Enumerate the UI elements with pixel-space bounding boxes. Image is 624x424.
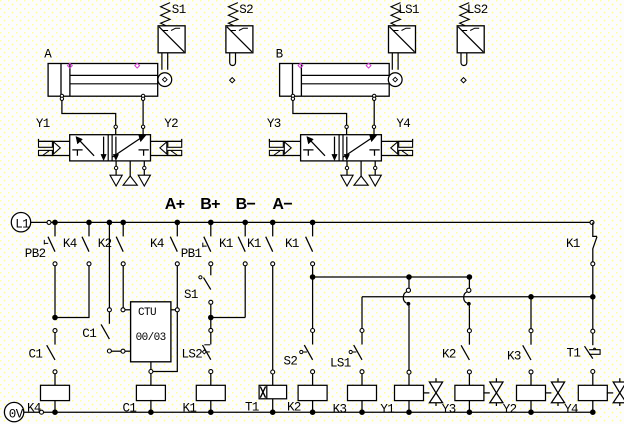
CTU output pin bottom [150, 362, 152, 370]
wire Y3 branch with crossover hop [464, 277, 471, 309]
wire K4 second contact to CTU right pin [176, 266, 178, 308]
svg-text:K4: K4 [150, 237, 164, 251]
svg-text:PB2: PB2 [25, 247, 46, 261]
tube cylinder A left port to valve V1 port 4 [62, 101, 116, 126]
counter CTU block [131, 302, 171, 362]
wire LS1 to coil K3 [361, 374, 363, 386]
valve V2 (5/2 solenoid valve for cylinder B) [269, 125, 412, 186]
wire K1 seal down to junction [244, 266, 246, 318]
svg-text:Y2: Y2 [503, 403, 517, 417]
wire coil K3 to 0V [361, 401, 363, 413]
svg-text:K3: K3 [333, 403, 347, 417]
svg-text:S2: S2 [239, 3, 253, 17]
contact C1 (NO) counter reset [101, 308, 111, 353]
svg-text:K2: K2 [287, 401, 301, 415]
junction on 0V at K3 coil [359, 409, 365, 415]
svg-text:C1: C1 [29, 348, 43, 362]
svg-text:A+: A+ [165, 196, 185, 213]
svg-text:S2: S2 [284, 355, 298, 369]
svg-text:Y4: Y4 [564, 403, 578, 417]
marker diamond S2 [230, 78, 235, 83]
junction on 0V at C1 coil [148, 409, 154, 415]
wire K2 to coil Y3 [468, 374, 470, 385]
junction bus A at Y3 branch [467, 274, 473, 280]
svg-text:K2: K2 [442, 348, 456, 362]
svg-text:K1: K1 [285, 237, 299, 251]
svg-text:PB1: PB1 [181, 247, 202, 261]
coil Y3 (solenoid) [455, 385, 484, 400]
wire seal-in horizontal [211, 317, 245, 319]
wire CTU right pin down to bottom output wire [153, 312, 177, 372]
junction on 0V at K4 coil [52, 409, 58, 415]
contact K4 (NO) [82, 222, 91, 265]
svg-text:B+: B+ [200, 196, 220, 213]
junction on L1 at K2 coil branch [310, 220, 316, 226]
svg-text:K1: K1 [566, 237, 580, 251]
limit switch S2 with plunger [226, 3, 253, 66]
pushbutton PB2 (NO) [48, 222, 57, 265]
coil Y2 (solenoid) [517, 385, 546, 400]
svg-text:K4: K4 [27, 402, 41, 416]
svg-text:CTU: CTU [138, 307, 156, 319]
wire bus to S2 [312, 277, 314, 329]
marker diamond cylinder B travel [366, 63, 371, 68]
wire bus B to T1 contact [592, 297, 594, 329]
limit switch LS2 with plunger [457, 3, 484, 66]
wire K2 contact to CTU count pin [122, 266, 124, 308]
junction on 0V at Y2 coil [528, 409, 534, 415]
coil Y1 (solenoid) [395, 385, 424, 400]
svg-text:T1: T1 [245, 401, 259, 415]
tube cylinder B left port to valve V2 port 4 [293, 101, 347, 126]
contact K1 (NO) third [306, 222, 315, 265]
marker diamond LS2 [461, 78, 466, 83]
limit switch LS1 with roller [388, 3, 415, 87]
marker diamond cylinder A piston [68, 63, 73, 68]
top rail L1 [31, 221, 592, 223]
contact K4 (NO) second [170, 222, 179, 265]
wire coil Y1 to 0V [408, 401, 410, 413]
svg-text:L1: L1 [15, 217, 29, 231]
cylinder A [48, 64, 158, 97]
svg-text:Y3: Y3 [267, 117, 281, 131]
coil K4 [41, 385, 70, 400]
contact LS2 (NO limit) [202, 328, 213, 373]
bus wire A horizontal [313, 276, 470, 278]
contact K2 (NO) [461, 329, 471, 374]
junction on L1 at PB1 branch [208, 220, 214, 226]
junction on 0V at Y1 coil [406, 409, 412, 415]
wire coil Y3 to 0V [468, 401, 470, 413]
junction on L1 at second K4 contact branch [175, 220, 181, 226]
valve symbol at Y2 [545, 392, 551, 394]
coil T1 (timer) with X box [259, 385, 287, 399]
cylinder B right port [373, 94, 376, 97]
valve symbol at Y1 [423, 392, 429, 394]
junction on L1 at T1 branch [270, 220, 276, 226]
junction K4-branch join [52, 315, 58, 321]
wire coil K2 to 0V [312, 401, 314, 413]
bottom rail terminal circle [40, 410, 44, 414]
svg-text:A: A [44, 48, 52, 62]
junction on 0V at T1 coil [270, 409, 276, 415]
wire T1 to coil Y4 [592, 374, 594, 386]
wire PB2 to junction [54, 266, 56, 318]
coil K2 [298, 385, 327, 400]
svg-text:Y3: Y3 [442, 403, 456, 417]
wire L1 to contact C1 (counter reset) [108, 222, 110, 307]
junction bus A at Y1 branch [406, 274, 412, 280]
wire C1 contact to CTU reset pin [111, 350, 123, 352]
tube cylinder A right port to valve V1 port 2 [142, 101, 144, 126]
terminal 0V [4, 402, 23, 421]
junction on L1 at K1 seal branch [242, 220, 248, 226]
junction on L1 at PB2 branch [52, 220, 58, 226]
contact K2 (NO) [116, 222, 125, 265]
junction on 0V at Y4 coil (rail end) [590, 409, 596, 415]
coil K3 [348, 385, 377, 400]
marker diamond cylinder B piston [298, 63, 303, 68]
svg-text:LS2: LS2 [182, 348, 203, 362]
junction on 0V at Y3 coil [467, 409, 473, 415]
valve symbol at Y4 [607, 392, 613, 394]
svg-text:S1: S1 [172, 3, 186, 17]
rail end terminal circle right [590, 220, 594, 224]
wire coil Y4 to 0V [592, 401, 594, 413]
cylinder B left port [291, 94, 294, 97]
junction on L1 at C1/CTU branch [107, 220, 113, 226]
svg-text:K2: K2 [98, 237, 112, 251]
svg-text:K1: K1 [183, 402, 197, 416]
junction on L1 at K2 contact branch [120, 220, 126, 226]
wire CTU bottom output to coil C1 [150, 374, 152, 386]
junction bus B at Y2 branch [528, 294, 534, 300]
coil Y4 (solenoid) [578, 385, 607, 400]
wire K1 NC to bus B [592, 266, 594, 297]
svg-text:K1: K1 [247, 237, 261, 251]
junction on 0V at K2 coil [310, 409, 316, 415]
CTU count input pin [125, 309, 131, 311]
contact S2 (NO limit) [300, 329, 315, 374]
cylinder A left port [60, 94, 63, 97]
wire S1 to junction [210, 304, 212, 328]
svg-text:K1: K1 [219, 237, 233, 251]
wire K4 contact down and left to PB2 branch [55, 266, 89, 318]
junction bus B at K1 branch [590, 294, 596, 300]
svg-text:LS2: LS2 [467, 3, 488, 17]
svg-text:0V: 0V [9, 407, 24, 421]
svg-text:LS1: LS1 [398, 3, 419, 17]
wire Y1 branch with crossover hop [403, 277, 410, 309]
wire PB1 to S1 [210, 266, 212, 276]
CTU output pin right [171, 309, 176, 311]
wire coil T1 to 0V [272, 399, 274, 412]
coil K1 [196, 385, 225, 400]
wire C1 contact to coil K4 [54, 374, 56, 385]
contact C1 (NO) on K4 coil branch [47, 329, 57, 374]
valve symbol at Y3 [483, 392, 489, 394]
marker diamond cylinder A travel [135, 63, 140, 68]
wire coil K4 to 0V [54, 401, 56, 413]
svg-text:LS1: LS1 [330, 357, 351, 371]
tube cylinder B right port to valve V2 port 2 [373, 101, 375, 126]
svg-text:K4: K4 [63, 237, 77, 251]
bus wire B horizontal [362, 296, 593, 298]
svg-text:C1: C1 [82, 327, 96, 341]
contact T1 (timer NO with delay symbol) [591, 329, 595, 333]
bottom rail 0V [24, 411, 593, 413]
bus B left corner down to LS1 [361, 297, 363, 329]
wire K3 to coil Y2 [530, 374, 532, 385]
valve V1 (5/2 solenoid valve for cylinder A) [39, 125, 182, 186]
svg-text:Y4: Y4 [396, 117, 410, 131]
wire LS2 to coil K1 [210, 374, 212, 385]
terminal L1 [11, 213, 30, 232]
junction bus A at K1 branch [310, 274, 316, 280]
coil C1 [136, 385, 165, 400]
cylinder B [280, 64, 390, 97]
rail terminal circle [47, 220, 51, 224]
contact LS1 (NO limit) [349, 329, 364, 374]
wire coil C1 to 0V [150, 400, 152, 412]
limit switch S1 with roller [158, 3, 185, 87]
junction S1/K1 seal-in [208, 315, 214, 321]
pushbutton PB1 (NO) [204, 222, 213, 265]
CTU reset input pin [125, 350, 131, 352]
wire K1 to bus junction [312, 266, 314, 277]
svg-text:00/03: 00/03 [136, 332, 166, 344]
svg-text:Y2: Y2 [164, 117, 178, 131]
svg-text:S1: S1 [184, 288, 198, 302]
junction on L1 at K4 contact branch [86, 220, 92, 226]
svg-text:B: B [276, 48, 284, 62]
svg-text:T1: T1 [567, 347, 581, 361]
cylinder A right port [141, 94, 144, 97]
svg-text:C1: C1 [123, 402, 137, 416]
contact S1 (NO limit) [204, 278, 211, 290]
contact K3 (NO) [523, 329, 533, 374]
junction on 0V at K1 coil [208, 409, 214, 415]
wire K1 to coil T1 [272, 266, 274, 370]
contact K1 (NO) for timer [266, 222, 275, 265]
svg-text:A−: A− [272, 196, 292, 213]
contact K1 (NC) top right [591, 222, 597, 265]
wire S2 to coil K2 [312, 374, 314, 386]
contact K1 (NO) seal-in [238, 222, 247, 265]
svg-text:Y1: Y1 [380, 403, 394, 417]
svg-text:K3: K3 [507, 350, 521, 364]
wire coil K1 to 0V [210, 401, 212, 413]
wire bus B to K3 contact [530, 297, 532, 329]
svg-text:Y1: Y1 [36, 117, 50, 131]
wire coil Y2 to 0V [530, 401, 532, 413]
svg-text:B−: B− [236, 196, 256, 213]
